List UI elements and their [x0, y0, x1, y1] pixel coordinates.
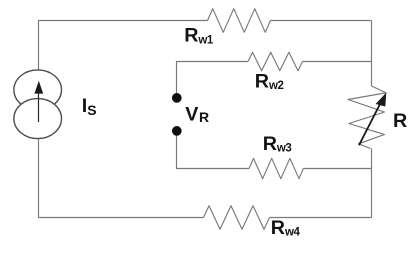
- wire bottom right segment: [270, 217, 372, 219]
- svg-text:Rw3: Rw3: [263, 133, 292, 155]
- node A (VR + terminal dot): [172, 93, 182, 103]
- wire inner bottom right segment: [303, 168, 371, 170]
- wire right lower: [371, 149, 373, 218]
- wire top right segment: [271, 20, 372, 22]
- resistor Rw3: [249, 158, 303, 178]
- resistor Rw2: [248, 52, 303, 71]
- resistor Rw4: [204, 206, 270, 230]
- node B (VR - terminal dot): [172, 126, 182, 136]
- wire bottom (left vertical drop + bottom horizontal to Rw4): [39, 139, 204, 218]
- svg-text:R: R: [393, 110, 407, 132]
- svg-text:Rw2: Rw2: [255, 71, 284, 93]
- variable resistor R arrow: [359, 93, 386, 146]
- svg-text:Rw1: Rw1: [184, 24, 214, 46]
- current source IS arrow: [34, 81, 43, 122]
- resistor Rw1: [208, 9, 271, 33]
- variable resistor R zigzag: [348, 86, 386, 149]
- current source IS circles: [14, 70, 62, 110]
- wire inner bottom (from node B down to corner then right to Rw3): [177, 136, 250, 169]
- wire right upper: [371, 21, 373, 87]
- wire inner top right segment: [303, 61, 372, 63]
- wire top (left vertical riser + top horizontal to Rw1): [39, 21, 208, 70]
- svg-text:VR: VR: [185, 103, 209, 125]
- wire inner top (from node A up to corner then right to Rw2): [177, 62, 249, 94]
- svg-text:Rw4: Rw4: [271, 217, 301, 239]
- svg-text:IS: IS: [82, 95, 97, 118]
